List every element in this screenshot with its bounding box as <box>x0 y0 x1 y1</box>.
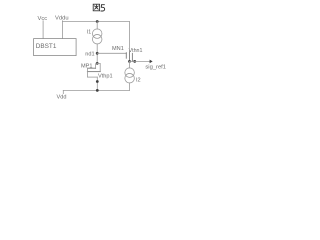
svg-text:I1: I1 <box>87 30 91 36</box>
wire top rail Vddu <box>63 21 130 23</box>
node junction on top rail <box>96 20 99 23</box>
wire MN1 drain from rail <box>128 22 130 52</box>
node MP1 drain (diode connection) <box>96 62 99 65</box>
wire Vdd stub <box>62 90 64 93</box>
wire MP1 gate-drain tie <box>97 63 100 71</box>
MP1 channel bar <box>88 67 96 69</box>
svg-text:sig_ref1: sig_ref1 <box>145 65 166 71</box>
wire I2 bottom to rail <box>129 83 131 91</box>
wire MN1 source to I2 <box>129 61 131 68</box>
current source I2 <box>125 68 135 78</box>
wire output to arrow <box>130 60 151 62</box>
MP1 gate bar <box>87 71 100 73</box>
node junction on bottom rail <box>96 89 99 92</box>
svg-text:I2: I2 <box>136 77 141 83</box>
block DBST1 <box>34 39 77 56</box>
wire nd1 to MN1 gate <box>97 52 126 54</box>
MP1 drain lead bar <box>96 64 98 69</box>
MP1 left lead <box>86 68 88 77</box>
figure label 図5 (kanji drawn as vector strokes) <box>93 4 99 11</box>
wire I1 top stem <box>96 22 98 30</box>
MP1 bottom lead <box>87 76 97 78</box>
wire bottom rail Vdd <box>63 89 129 91</box>
svg-text:MN1: MN1 <box>112 46 124 52</box>
svg-text:Vddu: Vddu <box>55 15 69 21</box>
node MN1 body tie <box>133 60 136 63</box>
svg-text:Vdd: Vdd <box>57 94 67 100</box>
svg-text:MP1: MP1 <box>81 64 93 70</box>
wire I1 to nd1 <box>96 44 98 63</box>
wire MP1 source down <box>96 77 98 90</box>
node MP1 source <box>96 80 99 83</box>
wire Vddu vertical <box>62 21 64 39</box>
node nd1 <box>96 52 99 55</box>
svg-text:DBST1: DBST1 <box>36 43 57 50</box>
svg-text:nd1: nd1 <box>85 52 94 58</box>
wire Vcc vertical <box>42 21 44 39</box>
svg-text:Vthn1: Vthn1 <box>129 48 143 54</box>
svg-text:Vcc: Vcc <box>38 16 48 22</box>
node MN1 source <box>128 60 131 63</box>
arrowhead sig_ref1 <box>150 60 153 64</box>
current source I1 <box>92 29 102 39</box>
svg-text:Vthp1: Vthp1 <box>98 74 113 80</box>
